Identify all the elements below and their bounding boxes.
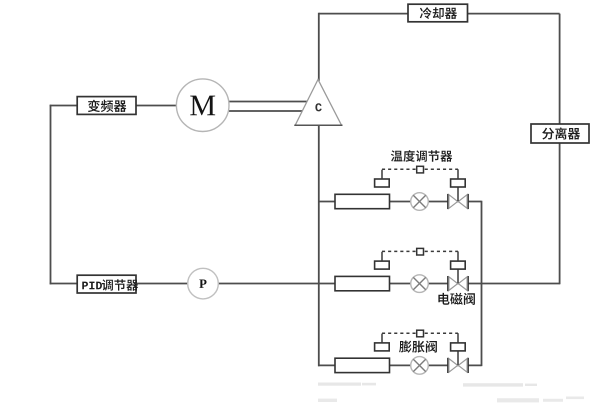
sensor box S2 (375, 261, 390, 269)
evaporator rectangle E3 (335, 358, 390, 372)
pressure transmitter P circle (188, 268, 219, 299)
separator box 分离器 (531, 124, 589, 143)
flow indicator (crossed circle) F2 (411, 275, 429, 293)
valve V1 actuator box (451, 179, 466, 187)
valve V2 actuator box (451, 261, 466, 269)
wire branch1 horizontal (318, 201, 482, 203)
sensor box S3 (375, 343, 390, 351)
actuator stub wire branch 2 (457, 251, 459, 261)
valve V2 body (bowtie) (448, 276, 468, 291)
sensor box S1 (375, 179, 390, 187)
sensor S3 stub wire (381, 334, 383, 343)
wire PID/branch2 horizontal (PID through pump to separator line) (50, 283, 560, 285)
compressor C triangle (294, 80, 342, 126)
dashed signal line branch 3 (382, 332, 458, 334)
evaporator rectangle E2 (335, 276, 390, 290)
dashed signal line branch 1 (382, 168, 458, 170)
wire motor shaft coupling double line (229, 102, 308, 112)
sensor S2 stub wire (381, 252, 383, 261)
valve V3 stem (457, 351, 459, 365)
cooler box 冷却器 (408, 4, 468, 22)
wire compressor discharge vertical (318, 13, 320, 81)
flow indicator (crossed circle) F1 (411, 193, 429, 211)
label 电磁阀 (solenoid valve) (438, 293, 475, 305)
flow indicator (crossed circle) F3 (411, 357, 429, 375)
evaporator rectangle E1 (335, 194, 390, 208)
controller square branch 1 (417, 166, 424, 173)
wire right branch vertical (valve outlets manifold) (481, 201, 483, 366)
valve V3 body (bowtie) (448, 358, 468, 373)
wire branch3 horizontal (318, 364, 482, 366)
inverter box 变频器 (77, 97, 136, 115)
actuator stub wire branch 3 (457, 333, 459, 343)
wire right vertical (cooler to separator to liquid line) (559, 14, 561, 285)
dashed signal line branch 2 (382, 250, 458, 252)
PID controller box PID调节器 (77, 275, 138, 293)
motor M circle (176, 79, 229, 132)
actuator stub wire branch 1 (457, 169, 459, 179)
wire inverter horizontal (left line to motor) (50, 105, 177, 107)
controller square branch 3 (417, 330, 424, 337)
valve V3 actuator box (451, 343, 466, 351)
label 膨胀阀 (expansion valve) (399, 341, 437, 353)
wire top horizontal (compressor outlet to cooler to separator) (319, 13, 560, 15)
sensor S1 stub wire (381, 170, 383, 179)
label 温度调节器 (temperature regulator) (391, 150, 452, 162)
controller square branch 2 (417, 248, 424, 255)
wire left vertical (PID to inverter) (50, 105, 52, 285)
valve V1 body (bowtie) (448, 194, 468, 209)
faint watermark smudge row1 (318, 383, 537, 387)
valve V1 stem (457, 187, 459, 201)
wire compressor suction vertical (crosses branch1 and branch2) (318, 125, 320, 367)
faint watermark smudge row2 (318, 397, 584, 403)
valve V2 stem (457, 269, 459, 283)
